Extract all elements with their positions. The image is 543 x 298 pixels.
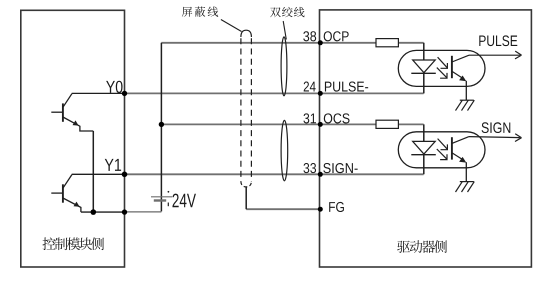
transistor Q2 xyxy=(51,175,81,213)
driver box xyxy=(320,10,532,267)
wire FG drop from shield xyxy=(245,187,247,209)
light arrows U1 xyxy=(437,57,448,78)
pin label 38 xyxy=(303,31,309,41)
control module box xyxy=(21,10,125,267)
pin label FG xyxy=(329,202,335,212)
wire OCS row xyxy=(161,123,376,125)
wire emitter bus row xyxy=(81,211,125,213)
pin label OCP xyxy=(324,31,332,41)
label SIGN xyxy=(482,122,489,133)
label 双绞线 (twisted pair) xyxy=(270,7,281,17)
output arrow PULSE xyxy=(469,54,520,56)
output arrow SIGN xyxy=(469,137,520,138)
battery 24V plus plate xyxy=(151,196,172,198)
resistor R1 xyxy=(376,39,398,47)
twisted-pair ellipse bottom xyxy=(281,120,288,180)
pin label 31 xyxy=(303,113,309,123)
pin 33 SIGN- xyxy=(318,172,323,177)
LED diode U2 xyxy=(413,141,436,154)
node bus-box xyxy=(122,209,127,214)
shielded-cable symbol (dashed capsule) xyxy=(241,30,252,187)
optocoupler capsule U2 xyxy=(398,132,485,168)
pin label 33 xyxy=(303,163,309,173)
pin label PULSE- xyxy=(325,82,332,92)
node Y1 xyxy=(122,172,128,178)
wire OCP row xyxy=(161,42,376,44)
wire FG row xyxy=(246,208,320,210)
pin 38 OCP xyxy=(318,40,323,45)
label PULSE xyxy=(479,36,485,46)
battery 24V minus plate xyxy=(154,199,166,201)
label 屏蔽线 (shielded wire) xyxy=(182,7,192,17)
wire Q1 emitter bus xyxy=(92,131,94,212)
wire Y1 / SIGN- row xyxy=(72,173,125,175)
pin FG xyxy=(318,207,323,212)
node label Y1 xyxy=(105,159,114,171)
node emitter-bus xyxy=(91,209,97,215)
wire LED2 drop xyxy=(423,124,425,174)
optocoupler capsule U1 xyxy=(398,50,485,86)
photo-transistor U2 xyxy=(452,137,469,163)
emitter-to-ground wire U2 xyxy=(465,162,467,181)
label 控制模块侧 (control module side) xyxy=(42,237,55,250)
emitter-to-ground wire U1 xyxy=(465,81,467,100)
light arrows U2 xyxy=(437,139,448,160)
wire battery column xyxy=(160,43,162,212)
pin label SIGN- xyxy=(323,163,330,173)
transistor Q1 xyxy=(51,94,93,131)
wire Y0 / PULSE- row xyxy=(72,92,125,94)
twisted-pair ellipse top xyxy=(281,37,287,96)
chassis ground U2 xyxy=(456,182,475,192)
node Y0 xyxy=(122,91,127,96)
pin 24 PULSE- xyxy=(318,91,323,96)
pointer line 屏蔽线 xyxy=(221,20,242,32)
label 驱动器侧 (driver side) xyxy=(397,241,410,253)
LED diode U1 xyxy=(413,60,436,73)
pin 31 OCS xyxy=(318,122,323,127)
pin label 24 xyxy=(304,82,309,92)
pin label OCS xyxy=(324,113,332,123)
pointer line 双绞线 xyxy=(283,21,286,40)
battery plus mark xyxy=(168,191,170,193)
resistor R2 xyxy=(376,120,398,128)
photo-transistor U1 xyxy=(452,55,469,81)
label 24V xyxy=(172,194,178,208)
chassis ground U1 xyxy=(456,100,475,110)
node battery-OCS xyxy=(159,122,164,127)
node label Y0 xyxy=(106,81,115,93)
wire LED1 drop xyxy=(423,43,425,94)
